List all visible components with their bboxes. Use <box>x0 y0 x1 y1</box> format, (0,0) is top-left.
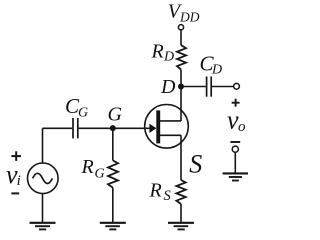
svg-text:G: G <box>78 106 88 121</box>
svg-text:R: R <box>149 180 162 202</box>
svg-text:DD: DD <box>179 9 200 24</box>
svg-text:S: S <box>164 188 172 204</box>
svg-text:D: D <box>160 76 176 98</box>
svg-text:R: R <box>151 40 164 62</box>
svg-text:G: G <box>95 166 105 181</box>
svg-text:D: D <box>211 63 222 78</box>
svg-text:i: i <box>17 173 21 189</box>
svg-text:D: D <box>163 50 174 65</box>
svg-text:R: R <box>81 156 94 178</box>
svg-text:S: S <box>189 149 202 178</box>
svg-text:G: G <box>108 104 123 126</box>
svg-text:o: o <box>238 119 246 135</box>
